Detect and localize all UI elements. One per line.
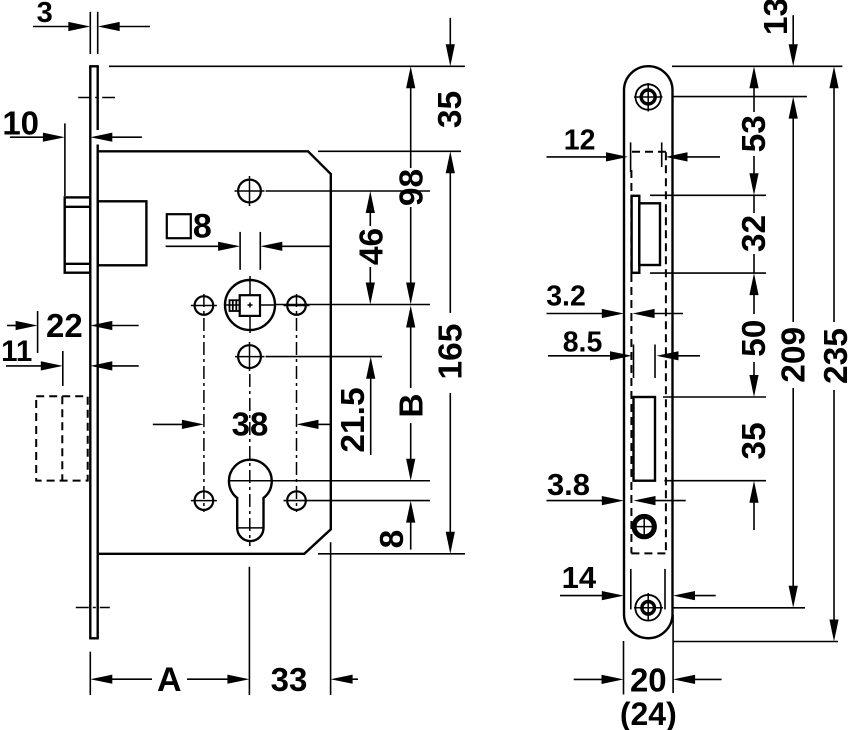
dimension 235 [829, 66, 838, 88]
svg-text:A: A [157, 661, 182, 699]
svg-text:35: 35 [432, 91, 469, 128]
svg-text:21.5: 21.5 [335, 387, 372, 452]
upper screw posts left+right [195, 296, 214, 315]
svg-text:235: 235 [818, 328, 848, 384]
reference line case top [318, 150, 461, 152]
svg-text:8: 8 [193, 208, 212, 246]
dashed lock case (hidden) in front view [630, 170, 632, 553]
lock case outline [99, 151, 331, 554]
svg-text:20: 20 [630, 661, 667, 698]
svg-text:22: 22 [46, 307, 83, 344]
dimension 209 [789, 97, 798, 119]
svg-text:B: B [394, 393, 431, 417]
top screw hole [636, 84, 661, 109]
svg-text:10: 10 [2, 104, 39, 141]
svg-text:8: 8 [374, 530, 411, 549]
svg-text:53: 53 [736, 115, 773, 152]
svg-text:3.2: 3.2 [546, 281, 586, 313]
svg-text:50: 50 [736, 320, 773, 357]
svg-text:(24): (24) [620, 696, 677, 730]
top fixing hole [238, 180, 261, 203]
front ref line plate bottom [673, 641, 838, 643]
faceplate bottom screw centerline [76, 607, 110, 609]
dimension 12 ticks [630, 142, 632, 172]
dimension square 8 follower [167, 214, 191, 238]
dashed strike/handle box [36, 396, 87, 480]
dimension A backset row [89, 652, 91, 695]
cylinder horizontal centerline [228, 480, 430, 482]
centerline through right posts [296, 294, 298, 512]
front ref line deadbolt top [663, 396, 766, 398]
deadbolt opening front view [634, 397, 656, 481]
cylinder vertical centerline [249, 374, 251, 546]
faceplate top screw centerline [78, 97, 115, 99]
dimension 20 extension lines [623, 641, 625, 695]
svg-text:13: 13 [758, 0, 795, 35]
dimension 35 top [449, 18, 451, 47]
dimension 22 [37, 311, 39, 353]
svg-text:3.8: 3.8 [547, 467, 590, 502]
striking plate outline (front view) [624, 66, 673, 638]
reference line lower posts [284, 500, 431, 502]
bottom screw hole [635, 595, 661, 621]
front ref line bottom screw [674, 607, 806, 609]
lower screw posts left+right [195, 491, 214, 510]
svg-text:33: 33 [271, 661, 308, 698]
svg-text:46: 46 [353, 228, 390, 265]
svg-text:35: 35 [736, 422, 773, 459]
svg-text:165: 165 [432, 324, 469, 380]
front ref line latch bottom [650, 272, 766, 274]
svg-text:14: 14 [562, 560, 597, 595]
dimension 32 [753, 195, 755, 213]
svg-text:209: 209 [775, 327, 812, 383]
reference line middle hole [266, 356, 383, 358]
reference line follower center [276, 304, 430, 306]
centerline through left posts [203, 294, 205, 512]
latch bolt body inside case [98, 201, 147, 265]
latch bolt front view [632, 196, 640, 273]
reference line case bottom [318, 553, 465, 555]
front ref line plate top [672, 65, 842, 67]
front ref line deadbolt bottom [664, 480, 766, 482]
faceplate (side view) [89, 66, 91, 638]
dimension 98 [406, 66, 415, 88]
dimension 21.5 [366, 357, 375, 379]
dimension 50 [749, 273, 758, 295]
dimension 8 cylinder to post [406, 501, 415, 523]
cylinder fixing screw hole [633, 516, 655, 538]
svg-text:98: 98 [394, 169, 431, 206]
svg-text:11: 11 [1, 335, 32, 368]
dimension 53 [749, 66, 758, 88]
reference line faceplate top [109, 65, 465, 67]
svg-text:8.5: 8.5 [563, 327, 603, 359]
dimension 3 faceplate thickness [89, 12, 91, 54]
dimension 14 ticks [630, 569, 632, 610]
reference line top hole [266, 190, 431, 192]
dimension 165 case height [446, 151, 455, 173]
front ref line latch top [650, 194, 766, 196]
front ref line top screw [673, 96, 807, 98]
euro profile cylinder hole (keyhole) [229, 460, 272, 541]
dimension B [406, 306, 415, 328]
svg-text:3: 3 [37, 0, 53, 29]
svg-text:12: 12 [564, 125, 596, 157]
dimension 8.5 ticks [633, 345, 635, 379]
svg-text:38: 38 [232, 405, 269, 442]
dimension 20 (24) [574, 678, 604, 680]
latch bolt head (protruding) [65, 197, 91, 272]
middle hole below follower [238, 345, 261, 368]
dimension 46 [366, 191, 375, 213]
follower (spindle hub) with 8mm square [225, 280, 275, 330]
svg-text:32: 32 [736, 215, 773, 252]
